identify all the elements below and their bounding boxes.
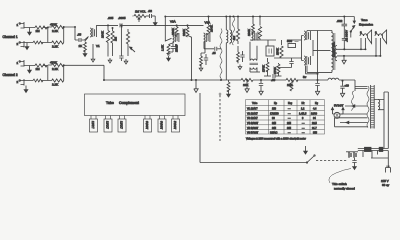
capacitor C14 .002 (343, 17, 345, 25)
svg-text:Esg: Esg (288, 102, 293, 105)
resistor R23 10K inline (286, 78, 298, 81)
power transformer T3 core column (371, 85, 375, 129)
wire join ch2 (48, 65, 104, 81)
tube V5 6V6 upper (304, 31, 310, 40)
svg-text:.002: .002 (337, 19, 343, 23)
svg-text:V3 12AX7: V3 12AX7 (247, 117, 258, 120)
resistor R6 68K (52, 63, 64, 66)
socket tab V4 (145, 116, 150, 120)
svg-text:100K: 100K (247, 29, 251, 36)
wire lower bus (250, 71, 260, 73)
capacitor C8 25MF (204, 58, 208, 60)
wire drop from plate wire (120, 25, 122, 52)
wire to plug (363, 151, 388, 168)
wavy divider chain (233, 17, 235, 46)
table header (247, 102, 319, 135)
capacitor C1 .05 (79, 38, 81, 42)
speaker SP2 (375, 30, 387, 44)
svg-text:6V6GT: 6V6GT (160, 121, 164, 130)
wavy divider lower (220, 29, 222, 81)
ground cluster2 (108, 58, 112, 63)
capacitor C16 20MF filter (317, 80, 319, 83)
wire grid drop (75, 27, 79, 40)
wire V1 plate (96, 25, 118, 28)
ground J2 (26, 43, 28, 45)
svg-text:12AX7: 12AX7 (106, 121, 110, 129)
capacitor C18 filter at rail end (342, 81, 344, 86)
wire rectifier cathode bus (335, 118, 369, 127)
wire jack bus ch2 (47, 66, 49, 81)
svg-text:2.2K: 2.2K (52, 29, 58, 33)
resistor R20 250K vertical (281, 40, 283, 45)
ground V2 cathode (167, 54, 171, 56)
wire jack loop bottom ch2 (24, 80, 48, 82)
jack J4 channel 2 (20, 79, 25, 86)
svg-text:+20: +20 (345, 85, 350, 88)
choke L1 inline (328, 78, 339, 80)
potentiometer arrow P1 (130, 47, 136, 52)
svg-text:V5 6V6GT: V5 6V6GT (247, 127, 259, 130)
svg-text:315: 315 (272, 127, 277, 130)
resistor R21 grid leak (267, 61, 269, 62)
capacitor C4 .02 (146, 15, 149, 17)
wire jack bus (47, 28, 49, 43)
wire jack loop top ch2 (24, 65, 48, 67)
svg-text:1M: 1M (232, 35, 236, 40)
wire top bus (165, 16, 354, 18)
wire bus corner contact (353, 17, 355, 22)
ground C17 (353, 165, 357, 170)
svg-text:5Y3GT: 5Y3GT (173, 121, 177, 130)
ground speaker bus (343, 56, 345, 58)
svg-text:1M VOL: 1M VOL (135, 10, 146, 14)
tube V2 12AX7 (173, 33, 179, 42)
resistor R19 (drop at 260) (259, 17, 261, 26)
resistor R3 68K (52, 41, 64, 44)
svg-text:Channel 2: Channel 2 (3, 73, 18, 77)
capacitor C2 .005 coupling (120, 23, 122, 27)
wire B+ rail (104, 79, 355, 81)
svg-text:V1 12AY7: V1 12AY7 (247, 108, 258, 111)
svg-text:V3A: V3A (205, 21, 211, 25)
resistor R17 cathode network (237, 46, 239, 52)
wire primary risers (384, 92, 388, 149)
tube V4 tremolo triode (252, 32, 258, 41)
svg-text:305: 305 (287, 127, 292, 130)
svg-text:V4 6V6GT: V4 6V6GT (247, 122, 259, 125)
svg-text:Expansion: Expansion (359, 23, 373, 27)
wire speaker bus upper (337, 48, 366, 50)
rectifier V7 5Y3GT (334, 112, 340, 118)
junction dots (47, 16, 381, 81)
jack J3 channel 2 (20, 60, 25, 67)
svg-text:5w: 5w (303, 76, 306, 79)
ground stub G7 (246, 80, 248, 86)
tremolo roach box U1 (266, 46, 274, 56)
svg-text:270K: 270K (273, 67, 277, 74)
wire long loop (200, 93, 307, 163)
callout curve (329, 169, 351, 184)
svg-text:10K: 10K (287, 83, 292, 87)
resistor R8 100K plate (vertical) (107, 25, 109, 30)
resistor R15 cathode V3 (204, 41, 206, 53)
svg-text:315: 315 (272, 122, 277, 125)
svg-text:Complement: Complement (119, 101, 139, 105)
capacitor C10 500MMF (288, 44, 296, 48)
svg-text:V2 12AX7: V2 12AX7 (247, 112, 258, 115)
svg-text:2.2K: 2.2K (52, 83, 58, 87)
wire between caps (343, 26, 345, 38)
resistor R12 100K plate V2 (176, 25, 178, 26)
capacitor C17 .05 (354, 158, 356, 161)
wire plate top to OT (307, 30, 332, 33)
wire center tap (313, 49, 331, 51)
socket tab V6 (173, 116, 178, 120)
wire double line (358, 149, 389, 151)
ground stub G6 (195, 80, 197, 86)
wire grid row (274, 57, 300, 59)
svg-text:2.2K: 2.2K (52, 67, 58, 71)
resistor R24 screen feed (291, 80, 293, 81)
svg-text:100K: 100K (210, 25, 214, 32)
label arrow 500 (295, 41, 299, 43)
wire B+ from rail down (354, 80, 356, 91)
ground J4 (25, 86, 27, 88)
svg-text:This switch: This switch (332, 182, 347, 186)
svg-text:470K: 470K (50, 23, 57, 27)
svg-text:10K: 10K (243, 83, 248, 87)
wire HV bottom to PT (340, 113, 368, 115)
svg-text:.02 600V: .02 600V (345, 30, 349, 42)
svg-text:325AC: 325AC (270, 132, 278, 135)
winding HV wavy (351, 91, 354, 111)
power transformer T3 left winding wavy (367, 86, 369, 128)
svg-text:Tone: Tone (361, 18, 368, 22)
resistor R16 (drop at 238) (237, 17, 239, 30)
tube V1 12AY7 (90, 28, 96, 37)
wire jack loop top (24, 27, 48, 29)
resistor R22 grid leak2 (278, 63, 280, 64)
svg-text:16/90: 16/90 (311, 112, 318, 115)
wire join (48, 27, 75, 43)
resistor R26 below rail (228, 80, 230, 82)
resistor R2 68K (52, 25, 64, 28)
resistor R9 1M grid leak (vertical) (112, 28, 114, 31)
ground (238, 65, 242, 70)
wire bus left drop to V2 (165, 17, 171, 42)
svg-text:1K: 1K (79, 44, 83, 48)
switch S2 footswitch (307, 156, 314, 163)
svg-text:1.5K: 1.5K (161, 45, 165, 51)
ground J1 (29, 28, 31, 31)
capacitor C19 .02 600V (342, 39, 347, 41)
svg-text:2.2K: 2.2K (52, 45, 58, 49)
resistor R10 cathode ch2 (126, 32, 129, 44)
svg-text:Voltages ± 20% measured with a: Voltages ± 20% measured with a 1000 ohm/… (246, 138, 306, 141)
svg-text:.02: .02 (148, 9, 153, 13)
dashed wire to trem jack (316, 160, 347, 162)
svg-text:100K: 100K (171, 28, 175, 35)
jack J1 channel 1 (20, 22, 25, 29)
socket tab V3 (120, 116, 125, 120)
resistor R14 100K plate V3 (208, 17, 210, 26)
svg-text:6V6GT: 6V6GT (145, 121, 149, 130)
socket tab V5 (160, 116, 165, 120)
svg-text:158: 158 (272, 108, 277, 111)
svg-text:1M: 1M (36, 29, 41, 33)
output transformer T2 secondary (335, 46, 337, 61)
resistor R5 1M inline (35, 64, 47, 67)
svg-text:170/150: 170/150 (270, 112, 279, 115)
svg-text:25MF: 25MF (175, 44, 179, 52)
tube V6 6V6 lower (304, 56, 310, 65)
socket tab V1 (91, 116, 96, 120)
svg-text:12AX7: 12AX7 (120, 121, 124, 129)
speaker SP1 (360, 30, 372, 44)
dashed tremolo line vertical (219, 95, 221, 141)
svg-text:V1: V1 (96, 44, 100, 48)
wire cathode to screen riser (306, 66, 318, 74)
resistor R7 68K (52, 79, 64, 82)
resistor R11 1.5K cathode V2 (169, 43, 175, 45)
ground V3 cathode (199, 66, 203, 71)
ground cluster under V1 (91, 57, 95, 62)
capacitor C15 20MF filter (260, 80, 262, 83)
capacitor C11 coupling to output grid (289, 62, 293, 64)
ground G5 (154, 16, 156, 21)
ground S2 (305, 146, 307, 149)
svg-text:V2A: V2A (170, 20, 176, 24)
wire mid h (250, 40, 276, 46)
svg-text:250K: 250K (276, 48, 280, 55)
svg-text:normally closed: normally closed (334, 187, 355, 191)
resistor R18 plate (drop at 253) (252, 17, 254, 25)
jack J2 channel 1 (20, 41, 25, 48)
wire to V1 grid (82, 37, 89, 41)
resistor R1b inline (33, 41, 43, 44)
svg-text:500: 500 (287, 39, 292, 43)
svg-text:270K: 270K (262, 65, 266, 72)
wire PT top doubles (355, 87, 368, 89)
oscillator transformer T1 coils (225, 17, 227, 31)
svg-text:.005: .005 (108, 16, 114, 20)
svg-text:21.7: 21.7 (312, 127, 317, 130)
svg-text:1M: 1M (114, 36, 118, 41)
tube V3 12AX7 (204, 33, 210, 42)
resistor R5b inline (33, 79, 43, 82)
resistor P1 1M VOL (134, 14, 146, 17)
svg-text:V6 5Y3GT: V6 5Y3GT (247, 132, 259, 135)
ground J3 (29, 66, 31, 69)
wire output grids (300, 57, 302, 59)
output transformer T2 core (333, 33, 335, 70)
resistor R1 1M inline (35, 26, 47, 29)
svg-text:470K: 470K (50, 61, 57, 65)
resistor R4 1K cathode + ground (85, 38, 88, 42)
svg-text:12AY7: 12AY7 (91, 121, 95, 129)
svg-text:100K: 100K (101, 31, 105, 38)
wire channel2 riser to B+ rail line (103, 65, 105, 80)
resistor R25 inline rail (241, 78, 253, 81)
svg-text:26.5: 26.5 (312, 122, 317, 125)
svg-text:Tube: Tube (252, 102, 258, 105)
interstage transformer T4 (250, 59, 257, 61)
svg-text:Channel 1: Channel 1 (3, 35, 18, 39)
wire heater arrows (345, 105, 368, 107)
capacitor C12 .05 inline (264, 75, 271, 77)
svg-text:.05: .05 (212, 51, 216, 55)
wire cathodes join (312, 40, 314, 56)
svg-text:1M: 1M (36, 67, 41, 71)
capacitor C5 25MF bypass V2 (171, 47, 175, 49)
wire plate risers (333, 108, 344, 114)
wire plate bottom to OT (307, 66, 332, 73)
trem jack contacts (346, 151, 358, 153)
wire speaker bus lower (337, 55, 381, 57)
svg-text:60 cy: 60 cy (382, 183, 390, 187)
AC plug P1 (386, 166, 391, 173)
switch S1 lever (351, 27, 354, 32)
resistor R13 220K to rail (187, 25, 189, 27)
capacitor C9 25MF/10V (240, 55, 244, 57)
svg-text:D130F JBL: D130F JBL (332, 42, 336, 57)
svg-text:.05: .05 (271, 78, 276, 82)
wire screens riser (317, 31, 319, 81)
capacitor C7 coupling V3 out (204, 42, 214, 49)
output transformer T2 primary (331, 31, 333, 73)
svg-text:355: 355 (313, 132, 318, 135)
svg-text:285: 285 (287, 122, 292, 125)
svg-text:1.4/1.5: 1.4/1.5 (299, 112, 307, 115)
svg-text:.05: .05 (77, 33, 82, 37)
wire grids vertical (302, 36, 304, 61)
socket tab V2 (106, 116, 111, 120)
wiper P1 (138, 19, 140, 23)
svg-text:.0005: .0005 (118, 16, 126, 20)
winding 5V filament (378, 100, 380, 110)
switch body blobs (365, 147, 372, 151)
capacitor C3 bypass (119, 56, 123, 58)
svg-text:Tube: Tube (106, 101, 114, 105)
svg-text:220K: 220K (182, 29, 186, 36)
svg-text:5Y3GT: 5Y3GT (334, 104, 344, 108)
wire jack loop bottom (24, 42, 48, 44)
